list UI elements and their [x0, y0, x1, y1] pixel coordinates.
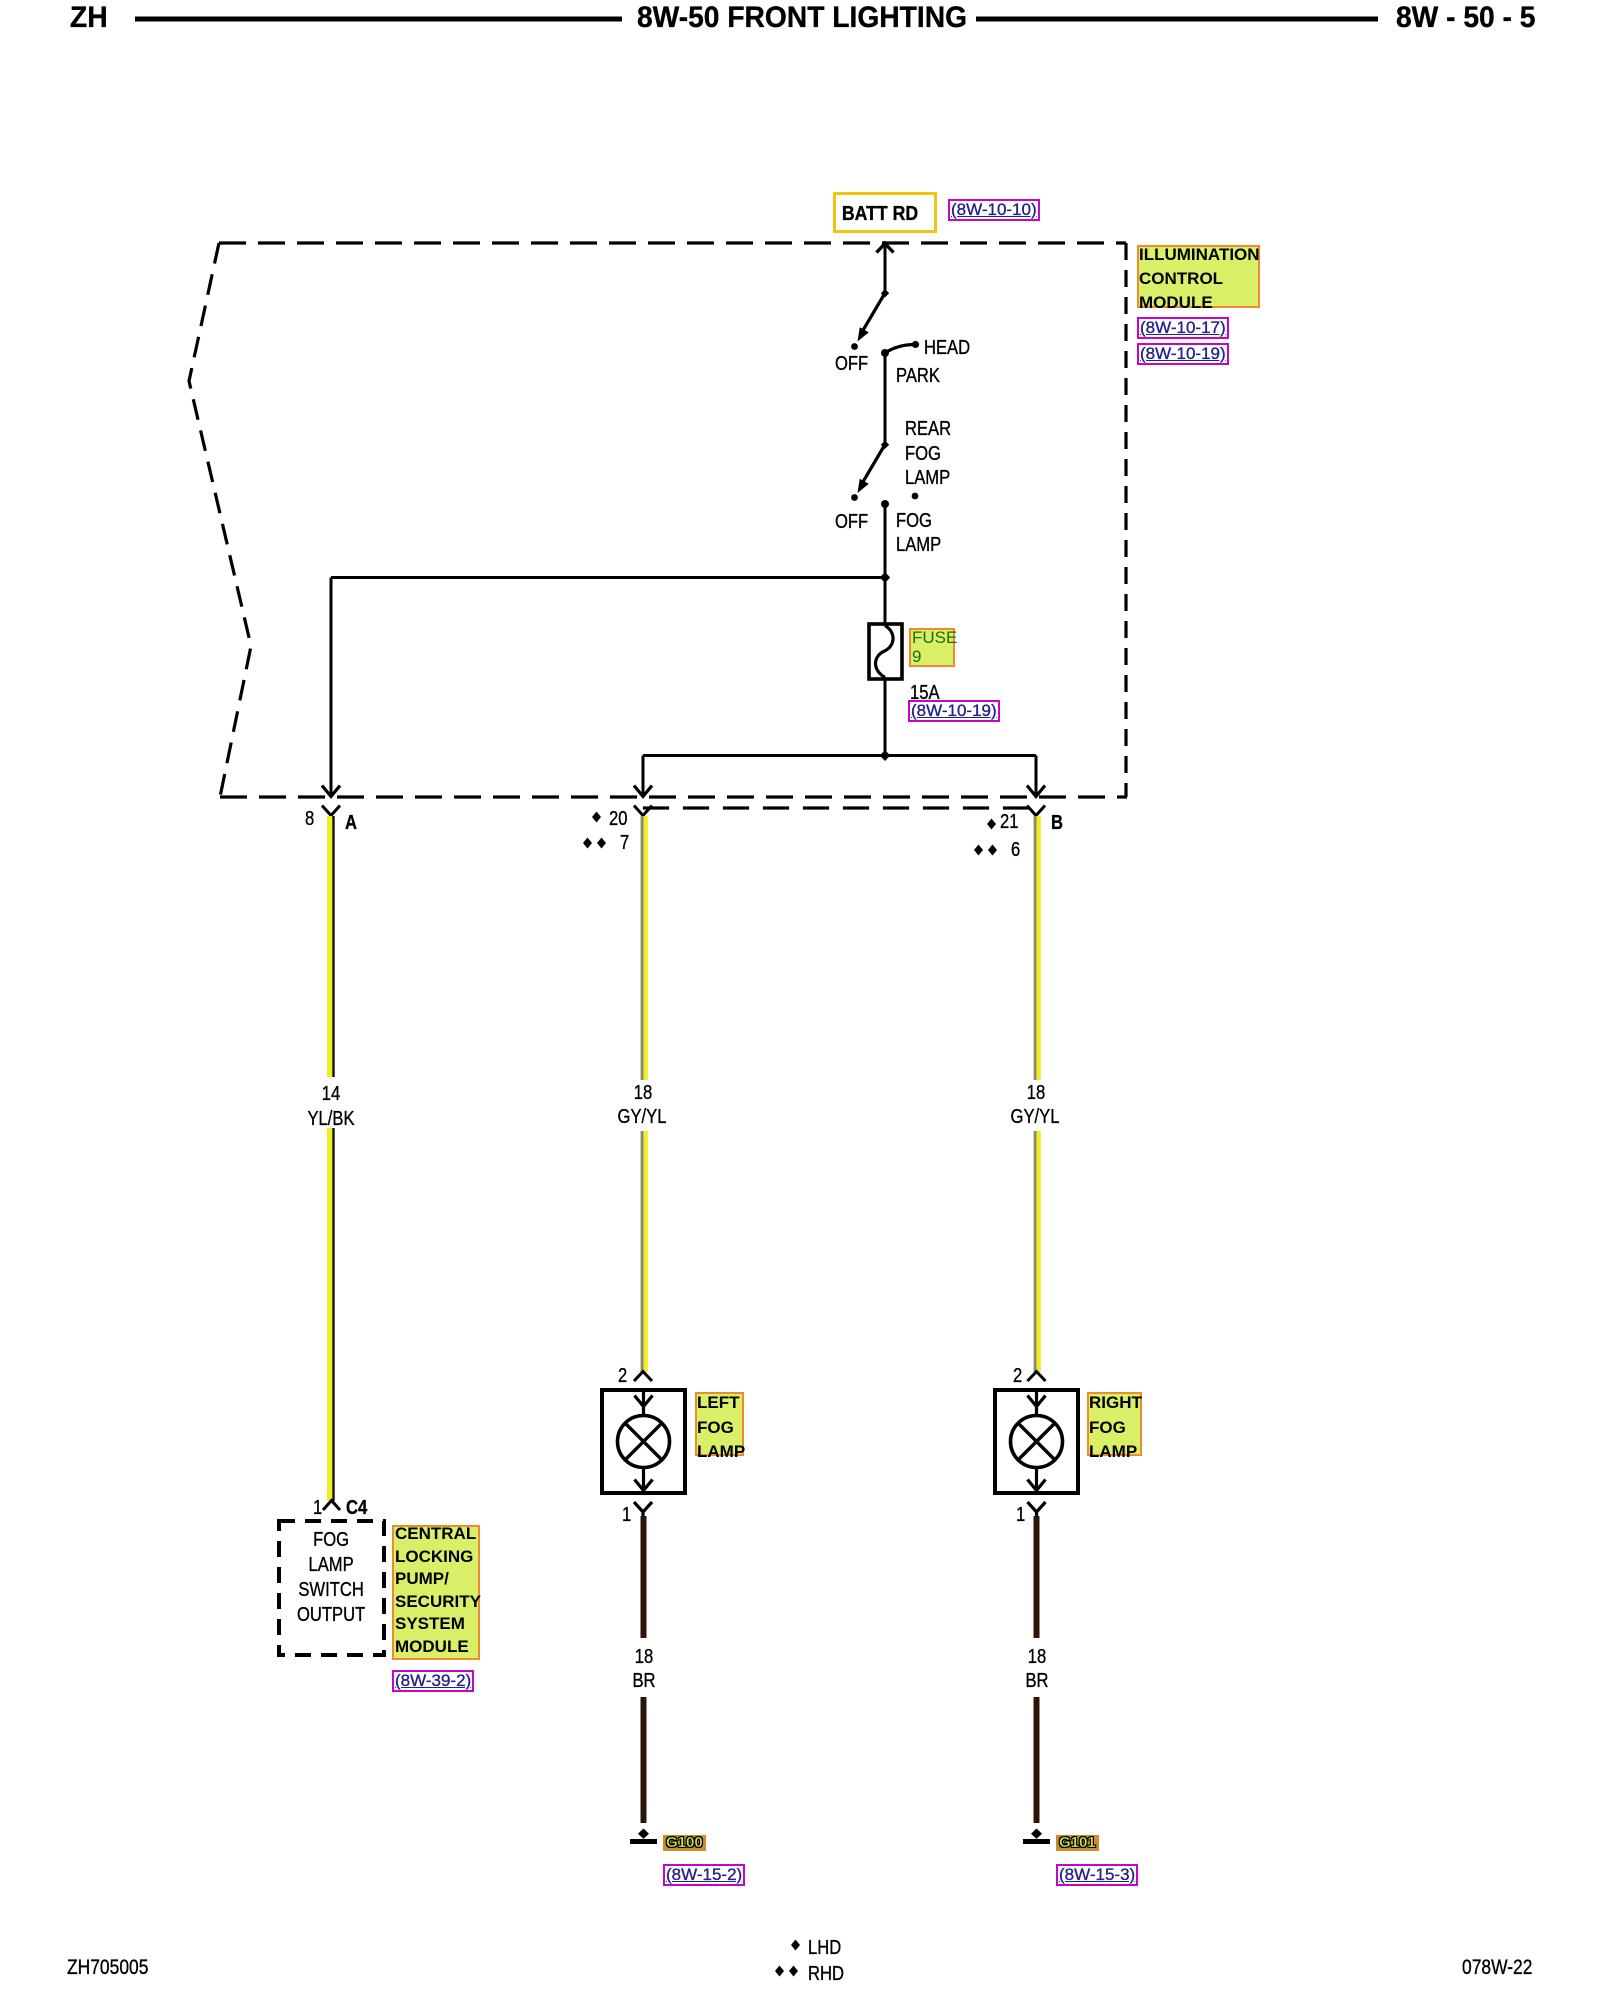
label LEFT FOG LAMP: [695, 1392, 744, 1456]
dashed module border: bottom: [220, 795, 1127, 798]
legend label LHD: [808, 1938, 848, 1958]
contact dot: REAR FOG LAMP: [912, 493, 919, 500]
wire: fuse to distribution junction: [884, 679, 887, 756]
wire: drop to pin 21 with arrow: [1027, 756, 1045, 797]
footer left: [67, 1957, 165, 1978]
node: junction at FOG LAMP output: [880, 572, 890, 583]
pin label C4: [346, 1498, 372, 1518]
wire label GY/YL (right): [1006, 1107, 1065, 1127]
connector pin 20 (Y symbol): [634, 806, 652, 820]
connector pin 1 right lamp (Y symbol): [1028, 1502, 1046, 1519]
dashed module border: left zigzag: [189, 243, 251, 797]
switch position label OFF (upper): [835, 354, 875, 374]
pin label 2 (left lamp): [618, 1366, 629, 1386]
header title: [637, 3, 988, 33]
wire label 18 (right): [1025, 1083, 1047, 1103]
label RIGHT FOG LAMP: [1087, 1392, 1142, 1456]
ground G101 symbol: [1023, 1829, 1050, 1842]
wire: PARK to REAR FOG LAMP node: [884, 353, 887, 445]
wire 18 GY/YL right segments: [1034, 816, 1041, 1372]
pin label 6: [1011, 840, 1022, 860]
fuse FUSE 9 body: [869, 624, 902, 679]
legend diamond LHD: [791, 1940, 800, 1951]
link 8W-10-17: [1137, 317, 1229, 339]
ground G100 symbol: [630, 1829, 657, 1842]
link 8W-15-2: [663, 1864, 745, 1886]
node: distribution junction: [880, 750, 890, 761]
connector pin 2 left lamp (chevron): [634, 1372, 652, 1382]
wire label BR (right): [1023, 1671, 1051, 1691]
label FUSE 9: [909, 628, 955, 667]
wire: distribution horizontal: [643, 754, 1036, 757]
wire label 18 (left BR): [632, 1647, 654, 1667]
link 8W-15-3: [1056, 1864, 1138, 1886]
contact dot: OFF 2: [851, 494, 858, 501]
node: switch pivot 2 feed: [881, 441, 889, 449]
link 8W-10-10: [948, 199, 1040, 221]
switch position label HEAD: [924, 338, 980, 358]
switch position label LAMP: [905, 468, 959, 488]
header rules: [0, 0, 1600, 60]
connector pin A (Y symbol): [322, 806, 340, 820]
legend diamonds RHD: [775, 1966, 798, 1977]
header left ZH: [70, 3, 110, 33]
switch position label REAR: [905, 419, 961, 439]
dashed box: fog lamp switch output: [279, 1521, 384, 1655]
pin label 2 (right lamp): [1013, 1366, 1024, 1386]
label 15A: [910, 683, 946, 703]
wire label 18 (right BR): [1025, 1647, 1047, 1667]
right fog lamp body: [995, 1390, 1078, 1493]
pin label 7: [620, 833, 631, 853]
wire 18 BR left segments: [641, 1516, 647, 1823]
link 8W-39-2: [392, 1670, 474, 1692]
wire 18 GY/YL left segments: [641, 816, 648, 1372]
pin label 1 (C4): [313, 1498, 324, 1518]
contact dot: HEAD: [912, 341, 919, 348]
label ILLUMINATION CONTROL MODULE: [1137, 245, 1260, 308]
text FOG LAMP SWITCH OUTPUT: [279, 1528, 384, 1628]
link 8W-10-19 (fuse): [908, 700, 1000, 722]
header page number: [1396, 3, 1544, 33]
dashed module border: top: [219, 241, 1126, 244]
footer right: [1462, 1957, 1547, 1978]
label G101: [1056, 1835, 1099, 1851]
wire: junction down to fuse: [884, 578, 887, 625]
connector pin 21 (Y symbol): [1027, 806, 1045, 820]
wire label GY/YL (left): [613, 1107, 672, 1127]
pin label 8: [305, 809, 316, 829]
wire: BATT RD feed with up arrow: [877, 241, 894, 293]
dashed module border: right: [1124, 243, 1127, 797]
contact dot: FOG LAMP pivot: [881, 500, 889, 508]
wire: drop to pin 20 with arrow: [634, 756, 652, 797]
switch position label LAMP (lower): [896, 535, 950, 555]
label G100: [663, 1835, 706, 1851]
pin label B: [1051, 813, 1065, 833]
pin label A: [345, 813, 359, 833]
switch position label OFF (lower): [835, 512, 875, 532]
connector pin 1 C4 (chevron): [323, 1501, 340, 1511]
switch position label FOG: [905, 444, 948, 464]
pin label 21: [1000, 812, 1022, 832]
wire 14 YL/BK upper segment: [327, 816, 335, 1501]
wire 18 BR right segments: [1034, 1516, 1040, 1823]
pin diamond: 20 (LHD): [592, 812, 601, 823]
wire label YL/BK: [303, 1109, 360, 1129]
switch arm 1 (to OFF): [853, 293, 885, 344]
pin label 1 (right lamp): [1016, 1505, 1027, 1525]
wire: FOG LAMP pivot down to junction: [884, 504, 887, 578]
pin diamond: 21 (LHD): [987, 819, 996, 830]
wire label 18 (left): [632, 1083, 654, 1103]
switch arm 2 (to OFF): [853, 445, 885, 496]
node: switch pivot 1 feed: [881, 289, 889, 297]
wire label BR (left): [630, 1671, 658, 1691]
legend label RHD: [808, 1964, 851, 1984]
connector pin 1 left lamp (Y symbol): [634, 1502, 652, 1519]
pin label 1 (left lamp): [622, 1505, 633, 1525]
connector pin 2 right lamp (chevron): [1028, 1372, 1046, 1382]
label CENTRAL LOCKING PUMP/ SECURITY SYSTEM MODULE: [392, 1525, 480, 1660]
dashed connector line between pins 20 and 21: [643, 806, 1034, 809]
wire label 14: [320, 1084, 342, 1104]
fuse element curve: [876, 626, 893, 678]
contact dot: pivot PARK: [881, 349, 889, 357]
pin diamonds: 7 (RHD): [583, 838, 606, 849]
box BATT RD: [833, 192, 937, 233]
contact dot: OFF 1: [851, 343, 858, 350]
switch position label FOG (lower): [896, 511, 939, 531]
wire: curve pivot to HEAD: [885, 345, 913, 354]
wire: drop to pin A with arrow: [322, 578, 340, 797]
pin label 20: [609, 809, 631, 829]
wire: junction to output A (horizontal): [331, 576, 885, 579]
left fog lamp body: [602, 1390, 685, 1493]
link 8W-10-19: [1137, 343, 1229, 365]
pin diamonds: 6 (RHD): [974, 845, 997, 856]
switch position label PARK: [896, 366, 949, 386]
